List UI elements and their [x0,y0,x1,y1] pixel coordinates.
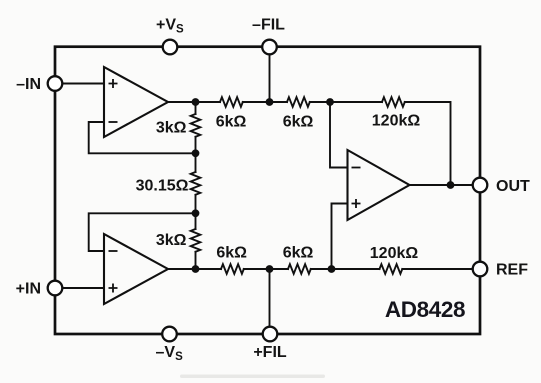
svg-text:30.15Ω: 30.15Ω [136,178,189,195]
svg-text:3kΩ: 3kΩ [156,232,187,249]
faint scan smudge bottom [180,375,325,379]
svg-text:6kΩ: 6kΩ [283,245,314,262]
wire A3 output to OUT pin [410,184,474,186]
op-amp A3 [348,150,410,220]
wire A3 plus input path [332,204,348,270]
svg-text:3kΩ: 3kΩ [156,120,187,137]
wire [243,101,287,103]
junction node output [447,181,455,189]
resistor 3k bottom (gain) [191,229,201,252]
wire -FIL drop [269,54,271,102]
junction node bottom rail left [192,265,200,273]
junction node A1 feedback [192,149,200,157]
svg-text:AD8428: AD8428 [385,297,465,322]
pin circle -VS [162,327,177,342]
outer boundary box of AD8428 [55,47,480,334]
A3 plus sign [352,199,361,208]
pin circle +VS [163,40,178,55]
A2 plus sign [109,284,118,293]
wire A1 feedback stub [89,122,196,153]
resistor 6k top-right [287,97,310,107]
wire top rail from A1 output [168,101,220,103]
wire to REF pin [402,268,473,270]
junction node bottom rail mid (+FIL) [266,265,274,273]
wire gain chain vertical x=195.5 [195,102,197,114]
wire 120k to output node [405,102,451,185]
A3 minus sign [352,167,361,169]
resistor 30.15 ohm [191,172,201,195]
wire [311,268,380,270]
resistor 120k bottom feedback [380,264,403,274]
wire bottom rail from A2 output [168,268,221,270]
junction node A2 feedback [192,209,200,217]
A2 minus sign [109,250,118,252]
junction node top rail mid (-FIL) [266,98,274,106]
junction node bottom rail right [328,265,336,273]
pin circle -IN [48,76,63,91]
wire -IN stub to A1 + input [62,83,104,85]
resistor 120k top feedback [382,97,405,107]
svg-text:+FIL: +FIL [253,344,287,361]
svg-text:6kΩ: 6kΩ [216,114,247,131]
pin circle REF [473,262,488,277]
pin circle +IN [48,281,63,296]
op-amp A1 [104,67,168,137]
A1 plus sign [109,79,118,88]
svg-text:OUT: OUT [496,178,530,195]
wire [195,137,197,172]
svg-text:REF: REF [496,262,528,279]
svg-text:6kΩ: 6kΩ [216,245,247,262]
resistor 6k bottom-right [288,264,311,274]
junction node top rail right [326,98,334,106]
wire [195,195,197,229]
wire A2 feedback stub [89,213,196,251]
wire [244,268,288,270]
pin circle OUT [473,178,488,193]
svg-text:6kΩ: 6kΩ [283,114,314,131]
pin circle +FIL [263,327,278,342]
svg-text:+IN: +IN [16,281,41,298]
svg-text:120kΩ: 120kΩ [370,245,419,262]
wire [195,252,197,269]
resistor 6k top-left [220,97,243,107]
wire +FIL riser [269,269,271,327]
resistor 3k top (gain) [191,114,201,137]
svg-text:–IN: –IN [16,76,41,93]
pin circle -FIL [262,40,277,55]
resistor 6k bottom-left [221,264,244,274]
op-amp A2 [104,234,168,304]
A1 minus sign [109,121,118,123]
junction node top rail left [192,98,200,106]
svg-text:120kΩ: 120kΩ [372,113,421,130]
svg-text:–FIL: –FIL [252,17,285,34]
wire A3 minus input path [330,102,348,168]
wire [310,101,382,103]
wire +IN stub to A2 + input [62,287,104,289]
